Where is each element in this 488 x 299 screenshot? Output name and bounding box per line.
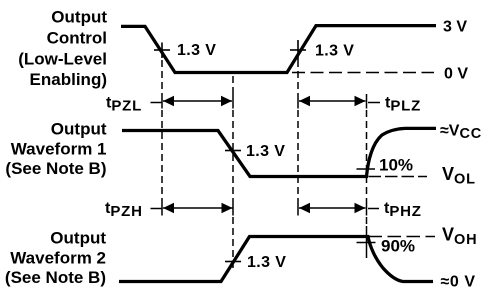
svg-text:≈0 V: ≈0 V — [441, 274, 476, 291]
output waveform 2 — [119, 237, 433, 282]
cross tick on control rising edge — [290, 40, 306, 60]
svg-text:10%: 10% — [379, 156, 413, 175]
control waveform — [121, 26, 436, 73]
svg-text:VOL: VOL — [442, 164, 476, 188]
VOL dashed leader — [369, 176, 428, 178]
svg-text:0 V: 0 V — [444, 66, 468, 83]
cross tick on waveform 2 rising edge — [225, 261, 241, 263]
dashed measurement line D (x=366.5) — [366, 94, 368, 258]
svg-text:Waveform 1: Waveform 1 — [11, 140, 107, 159]
svg-text:1.3 V: 1.3 V — [247, 254, 286, 271]
svg-text:Output: Output — [50, 229, 106, 248]
svg-text:1.3 V: 1.3 V — [177, 42, 216, 59]
svg-text:tPLZ: tPLZ — [385, 95, 421, 115]
cross tick on waveform 1 falling edge — [225, 150, 241, 152]
svg-text:Output: Output — [51, 7, 107, 26]
10% tick — [357, 168, 376, 170]
output waveform 1 — [122, 128, 436, 176]
svg-text:≈VCC: ≈VCC — [440, 123, 482, 143]
svg-text:tPZH: tPZH — [105, 200, 143, 220]
tPZL arrow — [151, 96, 233, 106]
0 V dashed level line — [292, 72, 434, 74]
dashed measurement line B (x=233) — [232, 76, 234, 270]
svg-text:3 V: 3 V — [443, 19, 467, 36]
tPLZ arrow — [299, 96, 380, 106]
tPHZ arrow — [299, 203, 379, 213]
svg-text:Waveform 2: Waveform 2 — [10, 249, 106, 268]
svg-text:Control: Control — [47, 28, 107, 47]
90% tick — [357, 242, 376, 244]
svg-text:(Low-Level: (Low-Level — [18, 49, 107, 68]
svg-text:Enabling): Enabling) — [30, 70, 107, 89]
svg-text:(See Note B): (See Note B) — [5, 268, 106, 287]
svg-text:tPHZ: tPHZ — [384, 200, 422, 220]
tPZH arrow — [151, 203, 233, 213]
svg-text:VOH: VOH — [442, 225, 477, 249]
dashed measurement line C (x=298) — [297, 60, 299, 216]
svg-text:tPZL: tPZL — [106, 95, 142, 115]
cross tick on control falling edge — [154, 43, 170, 59]
svg-text:1.3 V: 1.3 V — [246, 143, 285, 160]
label Output Waveform 2 (See Note B) — [5, 229, 106, 288]
svg-text:(See Note B): (See Note B) — [5, 159, 106, 178]
dashed measurement line A (x=162) — [161, 60, 163, 216]
VOH dashed leader — [369, 236, 436, 238]
svg-text:1.3 V: 1.3 V — [315, 43, 354, 60]
svg-text:Output: Output — [51, 120, 107, 139]
label Output Waveform 1 (See Note B) — [5, 120, 106, 178]
label Output Control (Low-Level Enabling) — [18, 7, 107, 89]
svg-text:90%: 90% — [381, 237, 415, 256]
